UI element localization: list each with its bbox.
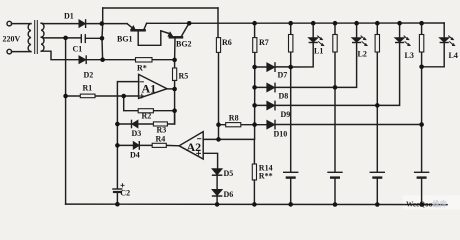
svg-text:A2: A2 [187,140,202,154]
svg-text:L4: L4 [449,51,458,60]
svg-text:D1: D1 [64,12,74,21]
svg-text:R3: R3 [157,126,167,135]
svg-text:L1: L1 [314,46,323,55]
svg-text:220V: 220V [3,35,21,44]
svg-text:D6: D6 [224,190,234,199]
svg-text:D7: D7 [278,70,288,79]
svg-text:R2: R2 [142,112,152,121]
svg-text:D5: D5 [224,169,234,178]
svg-text:D8: D8 [279,92,289,101]
svg-text:D3: D3 [132,129,142,138]
svg-text:R1: R1 [83,84,93,93]
svg-text:D4: D4 [130,151,140,160]
svg-text:BG2: BG2 [176,40,192,49]
svg-text:L3: L3 [405,51,414,60]
svg-text:D9: D9 [281,110,291,119]
svg-text:R*: R* [137,64,147,73]
svg-text:L2: L2 [358,49,367,58]
svg-text:R4: R4 [156,135,166,144]
svg-text:R**: R** [259,171,273,180]
svg-text:R8: R8 [229,113,239,122]
svg-text:R7: R7 [259,38,269,47]
svg-text:D10: D10 [274,130,288,139]
svg-text:R6: R6 [222,38,232,47]
svg-text:WeeQoo维库: WeeQoo维库 [406,199,448,208]
svg-text:C2: C2 [120,188,130,197]
svg-text:BG1: BG1 [117,35,133,44]
svg-text:A1: A1 [142,82,157,96]
svg-text:D2: D2 [84,71,94,80]
svg-text:R5: R5 [179,72,189,81]
svg-text:C1: C1 [73,45,83,54]
